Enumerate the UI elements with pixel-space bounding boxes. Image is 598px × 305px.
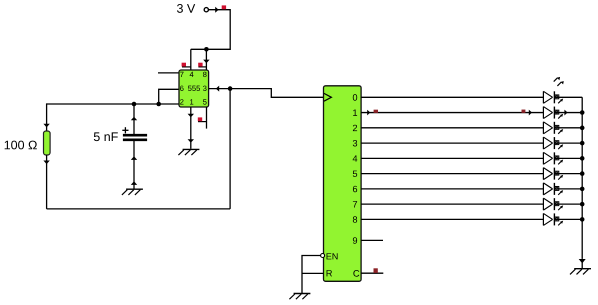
wire stub output 9 <box>361 239 383 241</box>
LED D2 <box>543 122 563 134</box>
wire cathode rail <box>581 97 583 258</box>
junction cathode rail row 6 <box>580 187 585 192</box>
wire LED D8 cathode to rail <box>554 218 582 220</box>
555 device label <box>188 86 200 91</box>
wire output 2 to LED <box>361 127 543 129</box>
current arrow after LED D1 <box>564 110 567 116</box>
4017 output label 5 <box>353 171 357 177</box>
current arrow down into pin 8 <box>203 60 209 64</box>
wire LED D5 cathode to rail <box>554 173 582 175</box>
wire capacitor upper <box>133 104 135 134</box>
wire 555 output pin 3 <box>209 88 231 90</box>
logic indicator high at 3V <box>222 5 226 9</box>
4017 output label 2 <box>353 125 357 131</box>
4017 enable bubble <box>321 254 325 258</box>
4017 output label 0 <box>353 94 357 101</box>
wire carry out C <box>361 272 383 274</box>
current arrow down above R1 <box>43 124 49 128</box>
current arrow on output 1 near LED <box>529 110 532 116</box>
wire rail to ground <box>581 258 583 268</box>
wire output 0 to LED <box>361 96 543 98</box>
ground under EN and R <box>289 294 310 300</box>
LED D1 <box>543 107 563 119</box>
4017 output label 9 <box>353 237 357 244</box>
junction cathode rail row 7 <box>580 202 585 207</box>
supply terminal circle <box>204 8 208 12</box>
wire output to 4017 clock <box>230 89 323 98</box>
capacitor C1 top plate <box>123 134 147 137</box>
wire stub 555 pin 7 <box>158 72 179 74</box>
555 pin label 2 <box>180 99 183 104</box>
555 pin label 3 <box>203 86 207 91</box>
4017 label C <box>353 270 359 277</box>
logic indicator high at pin 8 <box>198 66 206 68</box>
junction cathode rail row 4 <box>580 156 585 161</box>
junction cathode rail row 1 <box>580 110 585 115</box>
LED D7 <box>543 198 563 210</box>
wire LED D6 cathode to rail <box>554 188 582 190</box>
wire left rail lower <box>46 155 48 209</box>
wire 3V feed <box>191 10 230 50</box>
current arrow up on capacitor upper wire <box>131 117 137 121</box>
current arrow down to right ground <box>579 259 586 263</box>
wire left rail upper <box>46 103 48 131</box>
wire output 5 to LED <box>361 173 543 175</box>
wire output 8 to LED <box>361 218 543 220</box>
wire capacitor lower <box>133 141 135 189</box>
label 100 ohm <box>5 141 37 150</box>
current arrow left into pin 3 <box>216 86 219 92</box>
logic indicator high at pin 4 <box>182 66 191 68</box>
wire EN to ground <box>302 256 321 294</box>
wire R to ground rail <box>302 272 324 274</box>
logic indicator on output 1 near LED <box>522 110 526 113</box>
4017 label EN <box>327 253 338 259</box>
op-amp timer IC U1 555 body <box>179 70 209 107</box>
wire right return rail <box>229 89 231 209</box>
wire LED D7 cathode to rail <box>554 203 582 205</box>
junction cathode rail row 8 <box>580 217 585 222</box>
4017 output label 6 <box>353 186 357 193</box>
ground under capacitor <box>122 189 143 195</box>
LED D4 <box>543 152 563 164</box>
junction cathode rail row 3 <box>580 141 585 146</box>
wire 555 pin 1 to ground <box>190 107 192 149</box>
wire LED D0 cathode to rail <box>554 96 582 98</box>
current arrow right on 3V wire <box>215 7 218 13</box>
4017 output label 1 <box>353 110 357 116</box>
wire LED D1 cathode to rail <box>554 112 582 114</box>
wire output 6 to LED <box>361 188 543 190</box>
wire LED D4 cathode to rail <box>554 157 582 159</box>
label 3 V <box>177 4 195 13</box>
wire output 3 to LED <box>361 142 543 144</box>
wire output 1 to LED <box>361 112 543 114</box>
LED D8 <box>543 213 563 225</box>
current arrow up near capacitor ground <box>131 181 137 185</box>
current arrow on output 1 at chip <box>367 110 370 116</box>
label 5 nF <box>94 132 118 141</box>
LED D5 <box>543 168 563 180</box>
wire to 555 pin 8 <box>205 49 207 70</box>
logic indicator on output 1 near chip <box>374 110 378 113</box>
4017 clock chevron <box>324 93 331 101</box>
wire bottom rail <box>47 208 231 210</box>
555 pin label 4 <box>190 72 194 77</box>
4017 output label 7 <box>353 201 357 207</box>
wire to 555 pin 4 <box>190 49 192 70</box>
junction cathode rail row 2 <box>580 126 585 131</box>
LED D6 <box>543 183 563 195</box>
ground bottom right <box>570 269 591 275</box>
wire output 4 to LED <box>361 157 543 159</box>
capacitor C1 polarity plus <box>122 129 128 131</box>
resistor R1 100 ohm <box>44 131 51 155</box>
4017 label R <box>327 270 332 276</box>
junction at pin-8 branch <box>204 47 209 52</box>
wire output 7 to LED <box>361 203 543 205</box>
junction capacitor on top rail <box>132 102 137 107</box>
light emission arrows of lit LED <box>554 77 564 86</box>
current arrow down on pin 1 wire <box>188 114 194 118</box>
ground under 555 pin 1 <box>178 149 199 155</box>
4017 output label 3 <box>353 140 357 147</box>
555 pin label 7 <box>180 72 183 77</box>
wire stub 555 pin 5 <box>206 107 208 129</box>
logic indicator low at carry out <box>374 268 378 273</box>
LED D0 <box>543 91 563 103</box>
wire LED D2 cathode to rail <box>554 127 582 129</box>
junction pin-6 branch on top rail <box>156 102 161 107</box>
current arrow down near pin 1 ground <box>188 139 194 143</box>
LED D3 <box>543 137 563 149</box>
4017 output label 4 <box>353 155 358 161</box>
4017 output label 8 <box>353 216 357 223</box>
junction output node <box>228 86 233 91</box>
wire top rail to pins 2/6 <box>47 103 179 105</box>
555 pin label 5 <box>203 99 207 104</box>
555 pin label 8 <box>203 72 207 77</box>
current arrow down below R1 <box>43 161 49 165</box>
capacitor C1 bottom plate <box>123 139 147 142</box>
counter IC U2 4017 body <box>324 86 362 281</box>
logic indicator at pin 5 <box>198 121 207 123</box>
555 pin label 6 <box>180 86 184 91</box>
wire LED D3 cathode to rail <box>554 142 582 144</box>
wire to 555 pin 6 <box>159 89 179 104</box>
junction cathode rail row 5 <box>580 171 585 176</box>
555 pin label 1 <box>190 99 193 104</box>
current arrow up below capacitor <box>131 156 137 160</box>
